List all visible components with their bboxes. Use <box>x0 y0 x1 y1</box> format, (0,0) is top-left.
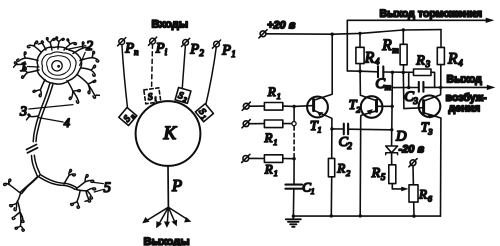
resistor R1 c <box>264 155 282 163</box>
svg-text:Выход: Выход <box>447 73 483 85</box>
node rail-Rm <box>402 28 405 31</box>
svg-text:R: R <box>447 50 458 67</box>
node gnd-T1e <box>330 214 333 217</box>
leader 2b <box>80 52 86 65</box>
node gnd-C1 <box>292 214 295 217</box>
axon fork left branch <box>20 177 38 193</box>
dendrite lower-right chain <box>67 81 80 104</box>
wire -20v to R6 <box>412 166 414 185</box>
svg-text:m: m <box>385 82 392 92</box>
wire P2 to S2 <box>182 45 185 89</box>
wire Pn to Sn <box>122 45 128 109</box>
wire C1 to ground <box>292 189 294 216</box>
svg-text:4: 4 <box>64 116 70 130</box>
resistor Rm <box>400 44 407 65</box>
wire R6 to ground <box>413 202 415 216</box>
resistor R6 (potentiometer) <box>409 185 418 202</box>
dendrite left-low arm <box>22 67 39 78</box>
wire R3 right corner down <box>431 72 435 87</box>
leader 2a <box>67 46 86 50</box>
svg-text:P: P <box>155 40 165 56</box>
wire T2 base vertical <box>391 72 394 130</box>
wire +20v rail <box>266 30 441 35</box>
synapse Si (dashed) <box>144 88 161 105</box>
node gnd-R6 <box>412 214 415 217</box>
node T2 base <box>391 105 394 108</box>
dendrite top-center <box>46 38 55 50</box>
node rail-R4L <box>358 32 361 35</box>
svg-text:R: R <box>364 50 375 67</box>
wire node-top bus (R4L bottom to R3) <box>347 71 413 72</box>
wire R3 left corner down <box>408 72 410 87</box>
wire inhibition output <box>347 20 488 71</box>
svg-text:Выход торможения: Выход торможения <box>380 8 483 20</box>
wire T3 collector <box>424 87 441 101</box>
wire excitation output <box>441 86 490 88</box>
resistor R2 <box>328 158 334 176</box>
svg-text:3: 3 <box>412 96 418 106</box>
input terminal 3 <box>243 156 249 162</box>
svg-text:1: 1 <box>20 60 27 75</box>
resistor R1 b <box>264 120 282 128</box>
terminal -20v <box>410 160 416 166</box>
left terminal claw up <box>4 179 20 193</box>
right branch terminal cluster <box>76 174 94 189</box>
capacitor Cm <box>378 66 383 77</box>
wire P1 to S1 <box>206 47 217 106</box>
output wire P <box>167 166 169 207</box>
axon hillock and axon (double line) <box>33 83 50 142</box>
svg-text:n: n <box>134 47 139 57</box>
wire R5 to R6 wiper <box>392 184 403 189</box>
output arrows fan <box>142 207 191 228</box>
leader 1 <box>28 66 40 69</box>
arrow T1 emitter (pnp) <box>317 112 323 117</box>
arrowhead inhibition <box>486 18 495 23</box>
svg-text:m: m <box>392 45 399 55</box>
arrowhead excitation <box>487 85 496 90</box>
svg-text:R: R <box>336 161 345 176</box>
wire T2 emitter <box>360 111 376 216</box>
terminal Pn <box>119 39 125 45</box>
resistor R5 <box>389 165 396 184</box>
svg-text:5: 5 <box>104 180 111 196</box>
svg-text:Выходы: Выходы <box>144 236 190 246</box>
cell body K circle <box>136 101 201 166</box>
dendrite upper-right arm <box>73 42 90 54</box>
svg-text:3: 3 <box>425 59 431 69</box>
svg-text:1: 1 <box>274 168 278 178</box>
svg-text:P: P <box>189 41 199 57</box>
dendrite left-up <box>27 41 41 52</box>
wire T1 emitter <box>314 110 332 216</box>
dendrite top-center2 <box>56 37 64 49</box>
diode D <box>391 131 393 146</box>
svg-text:D: D <box>395 129 407 145</box>
leader 5a <box>91 182 103 184</box>
terminal P2 <box>183 40 189 46</box>
wire T2 base lead <box>377 105 393 107</box>
node R4L-T2collector <box>358 70 361 73</box>
capacitor C1 <box>285 185 302 189</box>
right branch twig1 <box>64 169 75 184</box>
ground symbol <box>292 216 294 219</box>
synapse S2 <box>175 87 191 104</box>
left terminal twig bottom <box>12 201 24 231</box>
input terminal 2 <box>243 121 249 127</box>
wire T2 collector <box>360 71 376 100</box>
svg-text:P: P <box>124 41 134 57</box>
input terminal 1 <box>243 103 249 109</box>
capacitor C3 <box>419 82 424 92</box>
svg-text:дения: дения <box>449 103 481 115</box>
dendrite left arm <box>17 52 38 61</box>
svg-text:K: K <box>163 123 178 144</box>
svg-text:2: 2 <box>347 141 352 151</box>
resistor R4 right <box>437 47 444 64</box>
svg-text:-20 в: -20 в <box>399 144 425 156</box>
node input bus bottom <box>292 157 295 160</box>
arrow T3 emitter (pnp) <box>427 114 433 119</box>
svg-text:4: 4 <box>458 58 463 68</box>
wire T3 emitter <box>424 113 441 216</box>
axon break marks <box>27 145 38 153</box>
resistor R3 (horizontal) <box>414 69 432 76</box>
svg-text:1: 1 <box>231 49 236 59</box>
left terminal claw down <box>10 193 21 210</box>
node excitation output <box>439 86 442 89</box>
terminal +20v <box>260 31 266 37</box>
capacitor C2 <box>344 124 348 135</box>
transistor T2 <box>361 96 383 118</box>
wire T3 base vertical <box>403 73 423 109</box>
node T2base-top <box>391 71 394 74</box>
synapse S1 <box>194 104 213 123</box>
svg-text:1: 1 <box>277 91 281 101</box>
svg-text:R: R <box>371 166 381 181</box>
wire C2 line <box>332 128 392 131</box>
svg-text:3: 3 <box>19 104 27 119</box>
dendrite top-right curl <box>64 39 76 50</box>
wire C3 line <box>392 86 440 88</box>
svg-text:1: 1 <box>273 137 277 147</box>
axon lower segment (double) <box>32 156 38 176</box>
svg-text:3: 3 <box>427 126 432 136</box>
dendrite far-left arm <box>14 62 26 67</box>
node Rm-bottom <box>402 71 405 74</box>
node gnd-T2e <box>359 214 362 217</box>
resistor R1 a <box>264 103 282 111</box>
synapse Sn <box>119 107 138 126</box>
svg-text:6: 6 <box>428 194 433 204</box>
node rail-T1 <box>331 33 334 36</box>
svg-text:1: 1 <box>311 186 315 196</box>
terminal Pi <box>150 38 156 44</box>
node C2-D <box>390 128 393 131</box>
svg-text:2: 2 <box>356 104 361 114</box>
wire input3 <box>249 157 294 159</box>
dendrite lower-left <box>33 80 45 97</box>
node input bus top <box>292 105 295 108</box>
wire input bus to C1 <box>293 159 295 185</box>
svg-text:R: R <box>267 84 276 99</box>
transistor T3 <box>419 95 441 117</box>
svg-text:5: 5 <box>381 172 386 182</box>
svg-text:+20 в: +20 в <box>267 19 296 31</box>
svg-text:P: P <box>221 43 231 59</box>
axon side twig <box>27 114 38 120</box>
svg-text:R: R <box>381 37 392 54</box>
svg-text:Входы: Входы <box>152 19 189 31</box>
svg-text:R: R <box>264 130 273 145</box>
wire T1 base lead <box>294 105 313 108</box>
wire input bus dashed <box>293 127 295 157</box>
dendrite right arm long <box>80 51 99 62</box>
wire input2 <box>249 123 292 125</box>
svg-text:R: R <box>264 162 273 177</box>
wire ground rail <box>293 215 440 217</box>
neuron soma outer membrane <box>37 47 82 84</box>
wire Pi to Si (dashed) <box>151 44 154 87</box>
svg-text:1: 1 <box>317 124 321 134</box>
leader 3 <box>29 105 73 109</box>
arrowhead wiper <box>401 187 408 192</box>
wire input1 <box>249 105 294 107</box>
resistor R4 left <box>356 47 364 63</box>
dendrite right-low <box>81 65 96 76</box>
neuron nucleus <box>52 61 62 71</box>
svg-text:4: 4 <box>375 57 380 67</box>
terminal P1 <box>214 41 220 47</box>
node T1emitter-C2 <box>330 127 333 130</box>
leader 4 <box>39 118 64 122</box>
wire T1 collector <box>314 34 333 100</box>
svg-text:R: R <box>418 187 427 202</box>
open node input2 <box>292 122 296 126</box>
svg-text:2: 2 <box>199 48 204 58</box>
leader 5b <box>94 189 103 192</box>
arrow T2 emitter (pnp) <box>367 109 373 115</box>
svg-text:R: R <box>415 54 425 69</box>
dendrite right-down chain <box>77 75 99 99</box>
node R3C3 left <box>407 86 410 89</box>
svg-text:2: 2 <box>86 39 93 54</box>
dendrite upper-left small <box>38 41 46 50</box>
transistor T1 <box>307 97 328 118</box>
axon fork right branch (double) <box>38 176 75 189</box>
wire input bus solid top <box>293 106 295 121</box>
svg-text:P: P <box>171 176 182 195</box>
